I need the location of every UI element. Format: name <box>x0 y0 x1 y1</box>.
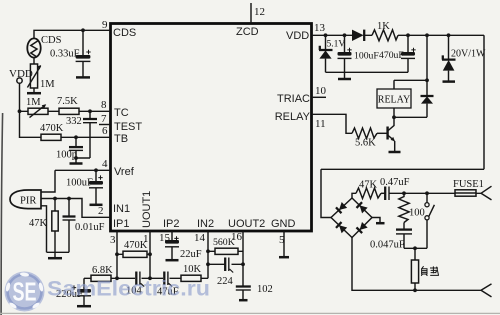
node load-bottom <box>413 288 417 292</box>
svg-text:0.047uF: 0.047uF <box>370 240 405 251</box>
node rail-relay <box>425 33 429 37</box>
wire TB line <box>61 136 110 138</box>
capacitor 332 <box>66 111 97 158</box>
node pin14-560K <box>206 249 210 253</box>
wire pin1 vertical <box>149 231 151 278</box>
node rail-zener20 <box>447 33 451 37</box>
ground under 100p <box>75 158 77 163</box>
svg-text:0.01uF: 0.01uF <box>75 222 105 233</box>
svg-text:IN2: IN2 <box>197 218 214 230</box>
wire TC line <box>20 110 111 112</box>
node tb-100p <box>74 135 78 139</box>
svg-text:IN1: IN1 <box>113 203 130 215</box>
zener 20V/1W <box>442 35 486 81</box>
svg-text:0.33uF: 0.33uF <box>50 49 80 60</box>
resistor 5.6K <box>352 128 377 149</box>
resistor 470K feedback1 <box>117 240 150 257</box>
svg-text:FUSE1: FUSE1 <box>453 179 484 190</box>
svg-text:560K: 560K <box>213 237 235 248</box>
wire pin14 vertical <box>207 231 209 278</box>
svg-text:7.5K: 7.5K <box>57 96 78 107</box>
capacitor 224 <box>208 258 243 288</box>
svg-text:20V/1W: 20V/1W <box>451 49 486 60</box>
node rail-zener51 <box>324 33 328 37</box>
svg-text:12: 12 <box>254 6 265 18</box>
svg-text:SamElectric.ru: SamElectric.ru <box>47 278 210 301</box>
wire bridge top to 47K <box>352 193 356 198</box>
resistor 100 <box>399 193 425 222</box>
svg-text:CDS: CDS <box>113 27 136 39</box>
capacitor 0.01uF <box>63 199 105 253</box>
svg-text:CDS: CDS <box>41 35 62 46</box>
pin 10 stub <box>312 96 326 98</box>
capacitor 100uF power <box>338 35 380 72</box>
ground pin5 <box>279 256 289 259</box>
watermark badge SE <box>5 272 45 312</box>
svg-text:470uF: 470uF <box>379 50 404 61</box>
node pin1-470K <box>148 252 152 256</box>
svg-text:13: 13 <box>314 22 326 34</box>
wire VDD rail <box>312 34 484 36</box>
wire PIR source to pin2 <box>41 199 110 218</box>
ground under 0.33uF <box>76 76 90 79</box>
svg-text:10K: 10K <box>183 264 202 275</box>
svg-text:10: 10 <box>315 85 327 97</box>
wire VDD rail down <box>20 83 42 137</box>
wire PIR drain to Vref <box>41 170 55 192</box>
capacitor 102 <box>236 284 273 300</box>
svg-text:470K: 470K <box>124 240 148 251</box>
capacitor 104 <box>126 272 144 297</box>
svg-text:2: 2 <box>98 205 104 217</box>
bridge rectifier <box>331 198 372 238</box>
svg-text:47K: 47K <box>359 180 378 191</box>
svg-text:PIR: PIR <box>20 196 36 207</box>
svg-text:14: 14 <box>194 232 206 244</box>
IC U1 pin labels <box>113 26 311 230</box>
ground under 100uF <box>90 204 103 207</box>
node src-47K <box>53 197 57 201</box>
wire relay branch <box>394 35 427 89</box>
svg-text:TB: TB <box>114 133 128 145</box>
terminal VDD <box>9 68 33 83</box>
wire pin16 vertical <box>242 231 244 286</box>
svg-text:100: 100 <box>409 208 425 219</box>
node tc-332 <box>88 109 92 113</box>
wire DC+ riser <box>321 35 484 217</box>
load resistor <box>411 248 418 290</box>
svg-text:5.1V: 5.1V <box>327 40 346 50</box>
svg-text:100uF: 100uF <box>66 178 93 189</box>
node relay-top <box>425 78 429 82</box>
wire bottom row <box>84 277 208 279</box>
node ac-100 <box>402 191 406 195</box>
svg-text:6: 6 <box>102 125 108 137</box>
pin 7 stub <box>99 124 110 126</box>
wire pin4 Vref <box>55 169 110 171</box>
svg-text:TC: TC <box>114 107 129 119</box>
svg-text:224: 224 <box>217 276 234 287</box>
svg-text:0.47uF: 0.47uF <box>380 177 410 188</box>
wire zener gnd rail <box>326 71 409 73</box>
svg-text:UOUT2: UOUT2 <box>228 218 265 230</box>
IC U1 body <box>111 24 312 232</box>
capacitor 100p <box>56 137 83 160</box>
svg-text:332: 332 <box>66 116 82 127</box>
capacitor 47uF <box>157 272 179 298</box>
svg-text:3: 3 <box>110 234 116 246</box>
label load chinese <box>421 266 439 276</box>
resistor 470K <box>40 123 64 140</box>
node vdd-tc <box>18 109 22 113</box>
node pin14-224 <box>206 262 210 266</box>
svg-text:UOUT1: UOUT1 <box>141 191 153 228</box>
svg-text:1K: 1K <box>377 21 390 32</box>
wire cds to pot <box>33 58 35 64</box>
wire pin11 to 5.6K <box>312 114 352 133</box>
node rail-470uF <box>406 33 410 37</box>
resistor 7.5K <box>57 96 79 114</box>
svg-text:1M: 1M <box>26 97 41 108</box>
node src-cap <box>67 197 71 201</box>
diode D1 <box>352 30 364 41</box>
svg-text:102: 102 <box>257 284 273 295</box>
ground emitter <box>389 151 401 154</box>
svg-text:RELAY: RELAY <box>275 111 311 123</box>
svg-text:6.8K: 6.8K <box>92 265 113 276</box>
svg-text:ZCD: ZCD <box>236 26 259 38</box>
svg-text:100uF: 100uF <box>354 51 379 62</box>
photoresistor CDS <box>27 35 61 58</box>
wire gnd row <box>47 251 70 253</box>
wire pin9 CDS net <box>34 30 110 38</box>
capacitor 0.33uF <box>50 30 91 77</box>
diode D2 flyback <box>394 80 434 117</box>
svg-text:8: 8 <box>101 99 107 111</box>
zener 5.1V <box>319 35 345 72</box>
wire bridge bottom to mains <box>352 238 481 291</box>
potentiometer 1M horizontal <box>26 97 48 118</box>
ground power <box>344 72 346 78</box>
ground bridge minus <box>372 218 380 223</box>
svg-text:1M: 1M <box>40 79 55 90</box>
svg-text:5.6K: 5.6K <box>355 138 376 149</box>
fuse FUSE1 <box>453 179 484 196</box>
capacitor 0.47uF <box>380 177 455 200</box>
node 100p-gnd <box>74 156 78 160</box>
resistor 47K <box>29 199 58 253</box>
svg-text:IP2: IP2 <box>163 218 180 230</box>
node pin1-row <box>148 276 152 280</box>
svg-text:TRIAC: TRIAC <box>277 93 310 105</box>
wire relay bottom <box>393 108 395 117</box>
svg-text:VDD: VDD <box>286 30 309 42</box>
ground under 20V zener <box>443 80 456 83</box>
capacitor 470uF <box>379 35 416 72</box>
node load-top <box>413 246 417 250</box>
resistor 6.8K <box>91 265 113 281</box>
capacitor 22uF <box>165 231 202 260</box>
node pin3-row <box>115 276 119 280</box>
node pin16-224 <box>241 262 245 266</box>
node cds-cap junction <box>81 28 85 32</box>
transistor Q1 <box>377 117 395 151</box>
capacitor 0.047uF <box>370 223 427 251</box>
svg-text:22uF: 22uF <box>180 249 202 260</box>
resistor 47K ac <box>356 180 381 199</box>
ground under 1M <box>33 88 35 93</box>
svg-text:11: 11 <box>315 118 326 130</box>
svg-text:Vref: Vref <box>114 166 135 178</box>
wire pin3 vertical <box>116 231 118 278</box>
switch S1 <box>425 193 435 248</box>
svg-text:IP1: IP1 <box>113 218 130 230</box>
ground under 220uF <box>77 305 91 308</box>
terminal ac neutral <box>481 284 492 297</box>
ground under 102 <box>239 299 248 302</box>
svg-text:100p: 100p <box>56 150 77 161</box>
svg-text:7: 7 <box>101 113 107 125</box>
resistor 560K <box>208 237 243 254</box>
sensor PIR <box>10 190 41 209</box>
resistor 10K <box>181 264 202 281</box>
scan edge left <box>1 113 2 315</box>
scan edge bottom <box>0 312 500 314</box>
node rail-100uF <box>343 33 347 37</box>
svg-text:RELAY: RELAY <box>378 95 410 106</box>
wire PIR gnd lead <box>42 206 47 253</box>
capacitor 220uF <box>56 278 91 305</box>
pin 12 wire <box>250 3 252 23</box>
ground under 22uF <box>166 259 179 262</box>
svg-text:TEST: TEST <box>114 121 142 133</box>
ground pir <box>54 252 56 257</box>
node pin3-470K <box>115 252 119 256</box>
node relay-collector <box>392 115 396 119</box>
capacitor 100uF <box>66 170 103 204</box>
terminal ac line <box>481 186 492 200</box>
node vref-100uF <box>94 168 98 172</box>
resistor 1K <box>372 21 398 41</box>
potentiometer 1M vertical <box>27 64 55 90</box>
svg-text:4: 4 <box>102 158 108 170</box>
relay K1 <box>377 89 411 108</box>
svg-text:47K: 47K <box>29 218 48 229</box>
svg-text:9: 9 <box>102 19 108 31</box>
node ac-switch <box>425 191 429 195</box>
svg-text:470K: 470K <box>40 123 64 134</box>
wire pin5 <box>283 231 285 257</box>
svg-text:SE: SE <box>13 277 37 307</box>
svg-text:GND: GND <box>271 218 296 230</box>
